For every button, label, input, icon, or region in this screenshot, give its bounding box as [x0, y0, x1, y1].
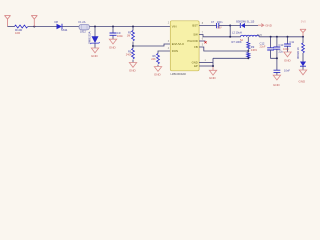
wire diode row — [230, 25, 258, 27]
capacitor C15 lower — [274, 70, 281, 72]
wire EN to U1 — [133, 44, 170, 46]
wire divider bottom — [132, 60, 134, 63]
ground input cap — [109, 39, 116, 44]
svg-text:100n: 100n — [117, 34, 124, 38]
wire EN divider upper — [132, 27, 134, 31]
svg-text:GND: GND — [129, 68, 137, 72]
svg-text:100n: 100n — [283, 47, 289, 51]
svg-text:1M: 1M — [127, 34, 130, 37]
svg-text:LM5163DDAR: LM5163DDAR — [171, 73, 187, 76]
svg-text:GND: GND — [209, 76, 217, 80]
svg-text:GND: GND — [284, 59, 292, 63]
svg-text:VIN: VIN — [172, 24, 177, 28]
svg-text:1812: 1812 — [80, 29, 86, 33]
ground EN divider — [129, 63, 136, 68]
svg-text:10R: 10R — [15, 31, 20, 35]
wire R10 to LED — [302, 53, 304, 62]
wire LED branch top — [302, 37, 304, 43]
wire divider mid — [132, 42, 134, 49]
svg-text:D8: D8 — [55, 20, 59, 24]
wire input cap branch — [112, 27, 114, 34]
no-connect PGOOD — [199, 40, 205, 42]
svg-text:5V0: 5V0 — [301, 20, 306, 24]
op IC U1 LM5163 — [170, 21, 199, 71]
wire FB — [199, 47, 248, 51]
wire GND column — [212, 58, 214, 67]
svg-text:FB: FB — [194, 45, 198, 49]
node SW junction — [229, 36, 231, 38]
node input cap tap — [112, 26, 114, 28]
node VIN junction — [33, 26, 35, 28]
svg-text:GND: GND — [299, 79, 307, 83]
svg-text:GND: GND — [91, 54, 99, 58]
svg-text:GND: GND — [154, 73, 162, 77]
node FB junction — [247, 50, 249, 52]
node EN junction — [132, 45, 134, 47]
node output cap C tap — [287, 36, 289, 38]
capacitor C9 — [110, 33, 117, 35]
resistor R6 RON — [157, 54, 160, 64]
fuse F1 — [79, 24, 90, 30]
svg-text:240K: 240K — [126, 53, 132, 56]
wire SW row — [199, 35, 240, 37]
power flag VIN1 — [5, 15, 11, 26]
ground RON — [154, 67, 161, 72]
wire zener branch — [94, 27, 96, 37]
ground EP — [212, 67, 214, 70]
capacitor C12 — [267, 48, 274, 50]
svg-text:F1 2A: F1 2A — [79, 20, 86, 24]
svg-text:PGOOD: PGOOD — [187, 39, 197, 43]
wire cap B branch — [276, 37, 278, 47]
wire RON to U1 — [158, 51, 170, 54]
svg-text:L2 10uH: L2 10uH — [232, 31, 242, 35]
wire SW vertical — [229, 26, 231, 37]
svg-text:EN/UVLO: EN/UVLO — [172, 42, 185, 46]
LED D11 — [300, 62, 306, 67]
wire GND pin stub — [199, 62, 213, 64]
ground cap C — [284, 52, 291, 57]
svg-text:24K: 24K — [151, 58, 156, 61]
resistor R10 LED — [302, 43, 305, 53]
capacitor C11 — [284, 44, 291, 46]
node zener tap — [94, 26, 96, 28]
diode D10 catch — [241, 23, 245, 28]
power flag VIN2 — [31, 15, 37, 26]
wire RON bottom — [157, 65, 159, 67]
svg-text:GND: GND — [109, 46, 117, 50]
ground LED — [299, 70, 306, 75]
inductor L2 — [241, 35, 260, 37]
wire cap C branch — [287, 37, 289, 44]
resistor R5 lower divider — [132, 49, 135, 59]
ground cap B — [273, 75, 280, 80]
wire EP pin stub — [199, 65, 213, 67]
svg-text:0603R 1K: 0603R 1K — [296, 47, 300, 59]
node EN divider tap — [132, 26, 134, 28]
resistor R9 FB bottom — [247, 53, 250, 59]
svg-text:SW: SW — [193, 33, 198, 37]
zener diode D9 SMBJ33A — [92, 36, 99, 43]
wire cap A branch — [270, 37, 272, 48]
svg-text:5V0: 5V0 — [257, 33, 262, 37]
svg-text:C11: C11 — [290, 40, 295, 44]
wire R1 to D1 — [28, 26, 57, 28]
wire C7 to SW node — [219, 25, 230, 27]
node LED branch tap — [302, 36, 304, 38]
svg-text:16V: 16V — [217, 27, 222, 30]
svg-text:C12: C12 — [260, 41, 265, 45]
resistor R3 upper divider — [132, 31, 135, 41]
svg-text:RON: RON — [172, 49, 178, 53]
wire F1 to U1 VIN — [90, 26, 171, 28]
node R9 bottom — [247, 57, 249, 59]
node cap merge — [276, 57, 278, 59]
node EP junction — [212, 65, 214, 67]
resistor R1 — [15, 25, 28, 28]
svg-text:SMBJ33A: SMBJ33A — [88, 31, 92, 44]
svg-text:BST: BST — [192, 24, 198, 28]
node output cap B tap — [276, 36, 278, 38]
svg-text:SS34: SS34 — [61, 28, 68, 32]
svg-text:GND: GND — [265, 24, 273, 28]
svg-text:EP: EP — [194, 64, 198, 68]
capacitor C7 boot — [217, 23, 219, 28]
svg-text:100n: 100n — [217, 21, 223, 24]
wire input to R1 — [8, 26, 15, 28]
wire D1 to F1 — [62, 26, 79, 28]
ground zener — [91, 48, 98, 53]
wire BST to C7 — [199, 25, 217, 27]
net arrow GND — [258, 24, 264, 27]
node BST-SW vertical — [229, 25, 231, 27]
resistor R7 FB top — [247, 37, 249, 42]
svg-text:B5819W SL,115: B5819W SL,115 — [236, 20, 255, 23]
svg-text:24K9: 24K9 — [251, 48, 258, 52]
wire output rail — [259, 36, 304, 38]
node output cap A tap — [270, 36, 272, 38]
wire FB bottom rail — [213, 57, 248, 59]
svg-text:C13: C13 — [279, 43, 284, 47]
svg-text:10nF: 10nF — [284, 68, 290, 72]
svg-text:R7 100K: R7 100K — [232, 40, 242, 44]
diode D1 — [57, 24, 63, 29]
svg-text:GND: GND — [273, 83, 281, 87]
svg-text:22uF: 22uF — [260, 45, 266, 49]
capacitor C13 — [274, 47, 281, 49]
